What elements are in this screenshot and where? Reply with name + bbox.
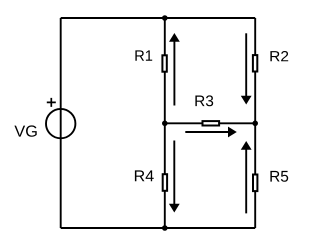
current arrow for R4 (down) bbox=[169, 141, 180, 213]
wire: top rail bbox=[61, 17, 256, 19]
node: bottom junction bbox=[162, 225, 168, 231]
current arrow for R2 (down) bbox=[241, 33, 252, 104]
resistor R5 bbox=[253, 171, 288, 191]
wire: right rail bbox=[254, 18, 256, 228]
node: middle-right junction bbox=[252, 121, 258, 127]
plus polarity mark of VG bbox=[47, 98, 56, 107]
label R4 bbox=[135, 170, 154, 181]
resistor R3 bbox=[195, 95, 219, 125]
resistor R2 bbox=[253, 51, 288, 72]
resistor R1 bbox=[135, 50, 166, 71]
voltage source VG bbox=[14, 98, 75, 138]
node: top junction bbox=[162, 15, 168, 21]
wire: middle horizontal branch (R3) bbox=[165, 122, 255, 124]
wire: left rail from top-left corner down to bottom-left corner bbox=[60, 18, 62, 228]
label VG bbox=[14, 125, 36, 136]
label R1 bbox=[135, 50, 152, 60]
label R2 bbox=[270, 51, 288, 61]
current arrow for R3 (right) bbox=[185, 127, 237, 138]
label R3 bbox=[195, 95, 213, 106]
resistor R4 bbox=[135, 170, 167, 190]
node: middle-left junction bbox=[162, 121, 168, 127]
wire: middle vertical branch (R1/R4) bbox=[164, 18, 166, 228]
current arrow for R1 (up) bbox=[169, 33, 180, 106]
wire: bottom rail bbox=[61, 227, 256, 229]
label R5 bbox=[270, 171, 288, 182]
current arrow for R5 (up) bbox=[241, 141, 252, 213]
